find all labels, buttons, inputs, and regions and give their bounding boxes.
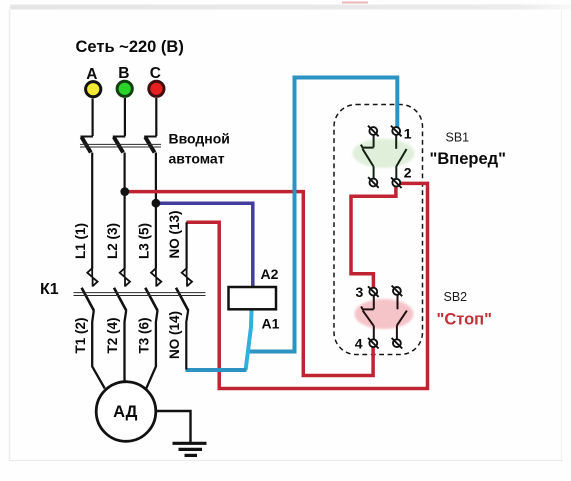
svg-text:SB2: SB2	[444, 290, 468, 304]
pin label L3 (5)	[136, 223, 151, 259]
phase indicator lamp B (green)	[117, 81, 132, 96]
svg-text:T1 (2): T1 (2)	[73, 317, 88, 353]
pin label T3 (6)	[136, 317, 151, 353]
wire cyan: coil A1 diagonal to NO(14)	[186, 309, 252, 370]
K1 mechanical linkage (double line)	[74, 293, 206, 296]
svg-text:С: С	[150, 65, 161, 82]
phase label B	[118, 65, 129, 82]
pin number 2	[404, 165, 412, 181]
label "Вперед"	[430, 150, 506, 168]
breaker QF pole B	[113, 137, 126, 153]
pin label NO (14)	[167, 311, 182, 359]
phase label A	[86, 66, 97, 83]
svg-text:автомат: автомат	[169, 151, 225, 167]
pin label NO (13)	[167, 210, 182, 258]
label: Вводной автомат	[169, 131, 230, 167]
label SB1	[446, 131, 470, 145]
wire T2 to motor	[125, 310, 127, 381]
contactor K1 contact 2 (L2/T2)	[114, 268, 130, 311]
wire red: NO(13) to latch bottom run to SB1 pin 2	[186, 183, 427, 388]
svg-text:"Стоп": "Стоп"	[437, 311, 492, 329]
wire phase C: lamp to breaker	[155, 98, 157, 136]
button enclosure (dashed box)	[334, 105, 423, 355]
label SB2	[444, 290, 468, 304]
svg-text:SB1: SB1	[446, 131, 470, 145]
wire phase B: lamp to breaker	[124, 98, 126, 136]
coil K1 (A1/A2)	[229, 266, 280, 332]
wire motor to ground	[156, 411, 191, 442]
pin number 4	[355, 336, 363, 352]
svg-text:A2: A2	[261, 266, 279, 282]
breaker QF (Вводной автомат) pole A	[81, 137, 94, 153]
node: junction on L2 (red tap)	[120, 187, 129, 196]
SB2 terminal pin 4 (bottom left)	[368, 338, 379, 349]
svg-text:T3 (6): T3 (6)	[136, 317, 151, 353]
svg-text:T2 (4): T2 (4)	[105, 317, 120, 353]
pin label T1 (2)	[73, 317, 88, 353]
svg-text:Вводной: Вводной	[169, 131, 230, 147]
SB1 terminal pin 2 left	[368, 177, 379, 188]
wire T1 to motor	[92, 310, 105, 388]
wire black: NO(14) lower terminal down to cyan	[186, 310, 188, 369]
label К1	[40, 281, 59, 298]
motor АД (M)	[96, 382, 156, 442]
pin label T2 (4)	[105, 317, 120, 353]
wire phase A: breaker to K1 L1	[91, 153, 93, 269]
wire T3 to motor	[146, 310, 157, 388]
pin number 3	[356, 284, 364, 300]
SB1 terminal pin 2 right	[391, 177, 402, 188]
phase indicator lamp A (yellow)	[86, 82, 101, 97]
phase indicator lamp C (red)	[149, 81, 164, 96]
svg-text:A1: A1	[262, 316, 280, 332]
SB2 terminal bottom right	[392, 338, 403, 349]
wire black: NO(13) upper terminal	[186, 222, 188, 268]
pin label L1 (1)	[73, 223, 88, 259]
svg-text:2: 2	[404, 165, 412, 181]
SB2 terminal top right	[392, 286, 403, 297]
svg-text:L3 (5): L3 (5)	[136, 223, 151, 259]
pin number 1	[404, 125, 412, 141]
label "Стоп"	[437, 311, 492, 329]
SB2 terminal pin 3 (top left)	[368, 286, 379, 297]
node: junction on L3 (navy tap)	[152, 199, 161, 208]
SB1 terminal pin 1 right	[391, 126, 402, 137]
svg-text:L1 (1): L1 (1)	[73, 223, 88, 259]
svg-text:АД: АД	[113, 403, 138, 421]
wire red: SB1 pin 2 to SB2 pin 3	[351, 187, 396, 289]
svg-text:В: В	[118, 65, 129, 82]
ground symbol	[173, 443, 207, 455]
wire phase B: breaker to K1 L2	[123, 153, 125, 269]
phase label C	[150, 65, 161, 82]
contactor K1 contact 3 (L3/T3)	[145, 268, 161, 311]
wire cyan: coil A1 to SB1 pin 1	[249, 78, 398, 352]
title: Сеть ~220 (В)	[76, 38, 184, 56]
button SB2 (red, Стоп)	[355, 295, 414, 340]
svg-text:NO (13): NO (13)	[167, 210, 182, 258]
svg-text:NO (14): NO (14)	[167, 311, 182, 359]
contactor K1 contact 1: chevrons + blade (L1/T1)	[82, 268, 98, 311]
svg-text:L2 (3): L2 (3)	[105, 223, 120, 259]
button SB1 (green, Вперед)	[353, 135, 415, 179]
SB1 terminal pin 1 (top left)	[368, 126, 379, 137]
wire navy: L3 node to coil A2	[156, 203, 253, 287]
svg-text:"Вперед": "Вперед"	[430, 150, 506, 168]
contactor K1 aux contact NO 13/14	[176, 268, 192, 311]
breaker QF pole C	[144, 137, 157, 153]
svg-text:К1: К1	[40, 281, 59, 298]
wire red: L2 node to SB2 pin 4	[125, 192, 373, 376]
pin label L2 (3)	[105, 223, 120, 259]
svg-text:1: 1	[404, 125, 412, 141]
svg-text:Сеть ~220 (В): Сеть ~220 (В)	[76, 38, 184, 56]
svg-text:4: 4	[355, 336, 363, 352]
svg-text:3: 3	[356, 284, 364, 300]
wire phase C: breaker to K1 L3	[155, 153, 157, 269]
wire phase A: lamp to breaker	[91, 99, 93, 137]
breaker mechanical linkage (double line)	[80, 144, 161, 147]
